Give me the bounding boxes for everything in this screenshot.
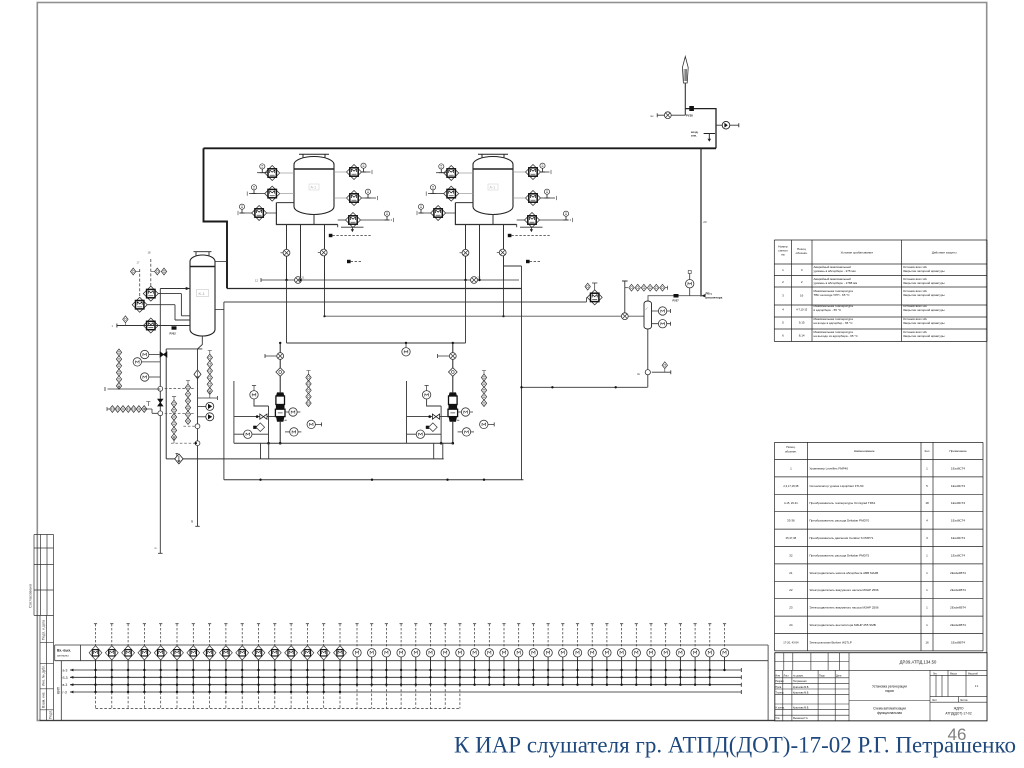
svg-text:РУ02: РУ02 [170, 332, 177, 336]
svg-text:Электродвигатель вакуумного на: Электродвигатель вакуумного насоса МЗНР … [809, 588, 878, 592]
svg-text:Дата: Дата [836, 675, 842, 678]
svg-text:K-1: K-1 [199, 291, 206, 296]
sub-box vertical right [406, 381, 408, 443]
svg-text:в-3: в-3 [63, 683, 68, 687]
frame bottom line [40, 720, 987, 722]
valve 21 [295, 277, 302, 284]
solenoid on feed line [172, 326, 177, 329]
vacuum pump unit N1 [234, 343, 321, 445]
air-supply chain A [116, 349, 121, 389]
svg-text:Закрытие запорной арматуры: Закрытие запорной арматуры [903, 308, 945, 312]
signal bus b-3 [70, 675, 741, 679]
svg-text:паров: паров [885, 689, 894, 693]
svg-text:23: 23 [789, 606, 793, 610]
horizontal air chain H [107, 407, 110, 411]
svg-text:б-3: б-3 [63, 676, 68, 680]
svg-text:Масштаб: Масштаб [968, 673, 979, 675]
pump interconnect line [287, 280, 466, 343]
sensor circle column 15 [559, 624, 567, 686]
sensor circle column 12 [515, 624, 523, 686]
svg-text:1ExdIIBT4: 1ExdIIBT4 [951, 640, 965, 644]
marshalling band enclosure [55, 645, 768, 720]
svg-text:Подп.: Подп. [49, 710, 53, 719]
svg-text:на: на [781, 253, 785, 257]
svg-text:Преобразователь расхода Deltab: Преобразователь расхода Deltabar PMD70 [809, 519, 869, 523]
svg-text:обознач.: обознач. [796, 251, 808, 255]
sensor circle column 25 [706, 624, 714, 686]
junction circles on drain [195, 424, 200, 429]
signal bus v-3 [70, 683, 741, 687]
blower to atmosphere [716, 123, 739, 127]
shutoff valve on flare line [689, 106, 694, 111]
absorber A1 assembly [238, 154, 394, 280]
dashed comb bottom line [96, 708, 460, 710]
svg-text:Закрытие запорной арматуры: Закрытие запорной арматуры [903, 281, 945, 285]
air chain E1 [306, 374, 311, 406]
feed line through M3 [117, 324, 190, 328]
svg-text:Изм: Изм [776, 675, 781, 678]
KIP box [60, 661, 62, 721]
svg-text:Краснова М.В.: Краснова М.В. [793, 686, 809, 689]
svg-text:Закрытие запорной арматуры: Закрытие запорной арматуры [903, 269, 945, 273]
svg-text:4-15, 26-31: 4-15, 26-31 [784, 501, 798, 505]
svg-text:функциональная: функциональная [877, 711, 902, 715]
lean absorbent line [325, 315, 645, 317]
absorbent feed drop line [158, 289, 162, 554]
sensor circle column 10 [485, 624, 493, 686]
left stamp strip (Подп. и дата / Инв №) [40, 615, 54, 720]
condensate header [522, 386, 648, 388]
signal risers above level instruments [139, 269, 141, 297]
column drain [195, 336, 202, 526]
protection logic table [774, 240, 987, 342]
svg-text:25,37,38: 25,37,38 [786, 536, 797, 540]
solenoid valve column 7 [187, 624, 200, 709]
svg-text:1ExdIICT4: 1ExdIICT4 [951, 466, 966, 470]
svg-text:18: 18 [925, 501, 929, 505]
column feed line from instruments [160, 288, 190, 290]
relief header down pipe [700, 148, 702, 296]
svg-text:21: 21 [789, 571, 793, 575]
column side nozzle [215, 309, 224, 311]
sensor circle column 3 [382, 624, 390, 686]
svg-text:1ExdIICT4: 1ExdIICT4 [951, 484, 966, 488]
sensor taps on risers [131, 268, 136, 275]
solenoid valve column 5 [154, 624, 167, 709]
svg-text:22: 22 [789, 588, 793, 592]
title block [775, 653, 987, 721]
svg-text:а-3: а-3 [63, 669, 68, 673]
svg-text:на входе в адсорбер - 65 °С: на входе в адсорбер - 65 °С [814, 321, 854, 325]
svg-text:регулятора: регулятора [706, 296, 723, 300]
svg-text:Наименование: Наименование [854, 449, 875, 453]
svg-text:Электродвигатель вакуумного на: Электродвигатель вакуумного насоса МЗНР … [809, 606, 878, 610]
svg-text:Примечание: Примечание [949, 449, 967, 453]
junction dots under vessels [285, 279, 287, 281]
approval strip table (Согласовано) [34, 535, 54, 616]
main vapour header [227, 288, 522, 290]
svg-text:Закрытие запорной арматуры: Закрытие запорной арматуры [903, 334, 945, 338]
sample branch [198, 396, 218, 400]
svg-text:Краснова М.В.: Краснова М.В. [793, 691, 809, 694]
svg-text:РУ27: РУ27 [673, 299, 680, 303]
solenoid valve column 16 [334, 624, 347, 709]
sub-box vertical left [233, 381, 235, 443]
svg-text:Листов: Листов [960, 700, 968, 702]
svg-text:ДР.09.АТПД.134.50: ДР.09.АТПД.134.50 [900, 660, 937, 665]
svg-text:Лист: Лист [784, 675, 790, 678]
svg-text:Взам. инв.: Взам. инв. [42, 692, 46, 708]
svg-text:Уровнемер Levelflex FMP40: Уровнемер Levelflex FMP40 [809, 466, 848, 470]
level instrument diamond M2 [132, 297, 147, 312]
svg-text:г-3: г-3 [63, 691, 67, 695]
svg-text:Подп. и дата: Подп. и дата [42, 620, 46, 640]
process boundary thick outline [204, 148, 717, 288]
junction circle 2 on drop line [158, 411, 163, 416]
svg-text:2ExdeIIBT4: 2ExdeIIBT4 [950, 606, 966, 610]
svg-text:уровень в абсорбере - 275 мм: уровень в абсорбере - 275 мм [814, 269, 856, 273]
sensor circle column 8 [456, 624, 464, 686]
sensor circle column 4 [397, 624, 405, 686]
instrument air riser [622, 281, 628, 316]
svg-text:33-36: 33-36 [787, 519, 795, 523]
solenoid valve column 2 [105, 624, 118, 709]
svg-text:4-7,10-13: 4-7,10-13 [796, 308, 808, 312]
svg-text:2,3,17,18,38: 2,3,17,18,38 [783, 484, 798, 488]
solenoid valve column 11 [252, 624, 265, 709]
signal bus a-3 [70, 668, 741, 672]
solenoid valve column 6 [171, 624, 184, 709]
sensor circle column 16 [573, 624, 581, 686]
junction circle on drop line [158, 386, 163, 391]
svg-text:1ExdIICT4: 1ExdIICT4 [951, 501, 966, 505]
svg-text:атм.: атм. [691, 134, 697, 138]
junction on lean line [621, 313, 628, 320]
sensor circle column 9 [470, 624, 478, 686]
air chain B [207, 354, 212, 394]
air chain C [185, 384, 190, 424]
svg-text:Согласовано: Согласовано [28, 583, 33, 608]
svg-text:1ExdIICT4: 1ExdIICT4 [951, 536, 966, 540]
svg-text:32: 32 [789, 553, 793, 557]
solenoid valve column 12 [268, 624, 281, 709]
instrument M2 line to column [147, 305, 190, 320]
solenoid valve column 8 [203, 624, 216, 709]
solenoid valve column 15 [317, 624, 330, 709]
vent line with valves [261, 278, 519, 282]
absorbent column K1 [194, 252, 212, 257]
instrument circle M left [141, 350, 149, 358]
svg-text:ЖДПО: ЖДПО [954, 707, 964, 711]
svg-text:Вх.-вых.: Вх.-вых. [57, 649, 71, 653]
riser top connection [166, 348, 202, 350]
svg-text:Т.контр.: Т.контр. [776, 691, 785, 694]
svg-text:Электроклапан Burkert W27LP: Электроклапан Burkert W27LP [809, 640, 851, 644]
level instrument diamond M3 [143, 318, 158, 333]
bottom collection header [224, 479, 524, 481]
sensor circle column 26 [724, 624, 726, 649]
svg-text:Преобразователь расхода Deltab: Преобразователь расхода Deltabar PMD75 [809, 553, 869, 557]
svg-text:РУ38: РУ38 [686, 114, 693, 118]
svg-text:Кол: Кол [925, 449, 930, 453]
sensor circle column 6 [426, 624, 434, 686]
sensor circle column 17 [588, 624, 596, 686]
svg-text:№ докум.: № докум. [793, 675, 804, 678]
equipment list table [775, 442, 984, 651]
solenoid valve column 14 [301, 624, 314, 709]
solenoid valve column 1 [89, 624, 102, 709]
svg-text:23: 23 [703, 220, 707, 224]
svg-text:Электродвигатель вентилятора М: Электродвигатель вентилятора МЗНР 255 SM… [809, 623, 875, 627]
svg-text:2ExdeIIBT4: 2ExdeIIBT4 [950, 588, 966, 592]
sensor circle column 2 [368, 624, 376, 686]
svg-text:на выходе из адсорбера - 65 °С: на выходе из адсорбера - 65 °С [814, 334, 859, 338]
vacuum pump unit N2 [407, 343, 494, 445]
svg-text:16: 16 [925, 640, 929, 644]
air chain E2 [481, 374, 486, 406]
valve 22 [471, 277, 478, 284]
sensor circle column 22 [662, 624, 670, 686]
pump discharge bus [234, 442, 453, 444]
flare knockout box [685, 109, 716, 149]
instrument circle P left [141, 373, 149, 381]
svg-text:9,15: 9,15 [799, 321, 805, 325]
svg-text:Петрашенко: Петрашенко [793, 680, 807, 683]
svg-text:сигналы: сигналы [57, 654, 69, 658]
vessel2 lean pipe extension [503, 280, 505, 316]
svg-text:Краснова М.В.: Краснова М.В. [793, 706, 809, 709]
sensor circle column 21 [647, 624, 655, 686]
solenoid valve column 4 [138, 624, 151, 709]
sensor circle column 18 [603, 624, 611, 686]
K2 bottom drain [647, 329, 649, 388]
instrument circle M2 left [133, 358, 141, 366]
tap on feed line [123, 316, 128, 323]
svg-text:1:1: 1:1 [975, 684, 979, 688]
svg-text:Мышкина Г.А.: Мышкина Г.А. [793, 717, 809, 720]
sensor circle column 13 [529, 624, 537, 686]
absorbent return header [224, 297, 587, 302]
svg-text:1ExdIICT4: 1ExdIICT4 [951, 553, 966, 557]
svg-text:17-20, 43-54: 17-20, 43-54 [783, 640, 799, 644]
svg-text:Действие защиты: Действие защиты [932, 251, 957, 255]
sensor circle column 23 [676, 624, 684, 686]
svg-text:АТПД(ДОТ)-17-02: АТПД(ДОТ)-17-02 [945, 711, 971, 715]
vertical labels of stamp strip [42, 620, 53, 719]
svg-text:Условие срабатывания: Условие срабатывания [841, 251, 874, 255]
sensor circle column 24 [691, 624, 699, 686]
solenoid valve column 13 [285, 624, 298, 709]
sensor circle column 5 [412, 624, 420, 686]
instrument signal dash lines [160, 389, 195, 444]
svg-text:1ExdIICT4: 1ExdIICT4 [951, 519, 966, 523]
svg-text:8,14: 8,14 [799, 333, 805, 337]
svg-text:Лит.: Лит. [933, 673, 938, 675]
svg-text:обознач.: обознач. [785, 450, 797, 454]
air chain D [171, 400, 176, 440]
svg-text:Разраб.: Разраб. [776, 680, 785, 683]
svg-text:Закрытие запорной арматуры: Закрытие запорной арматуры [903, 321, 945, 325]
recycle downcomer [504, 266, 522, 480]
pump takeoffs [198, 405, 206, 407]
sensor circle column 14 [544, 624, 552, 686]
svg-text:Установка регенерации: Установка регенерации [872, 685, 907, 689]
svg-text:К ИАР слушателя гр. АТПД(ДОТ)-: К ИАР слушателя гр. АТПД(ДОТ)-17-02 Р.Г.… [454, 733, 1016, 758]
svg-text:2ExdeIIBT4: 2ExdeIIBT4 [950, 623, 966, 627]
svg-text:Преобразователь температуры Om: Преобразователь температуры Omnigrad TR6… [809, 501, 875, 505]
sensor circle column 11 [500, 624, 508, 686]
svg-text:Утв.: Утв. [776, 717, 781, 720]
solenoid valve column 10 [236, 624, 249, 709]
column top nozzle to boundary [215, 261, 227, 263]
svg-text:в адсорбере - 65 °С: в адсорбере - 65 °С [814, 308, 842, 312]
svg-text:Преобразователь давления Cerab: Преобразователь давления Cerabar S PMP71 [809, 536, 873, 540]
level instrument diamond M1 [143, 286, 158, 301]
regenerated vapour line to regulator [648, 296, 701, 301]
flare stack symbol [682, 57, 688, 84]
pressure regulator instrument [686, 280, 694, 288]
check valve on transfer line [175, 454, 183, 464]
riser from header [223, 302, 225, 480]
shutoff valve on drop line [158, 399, 163, 406]
svg-text:уровень в абсорбере - 1788 мм: уровень в абсорбере - 1788 мм [814, 281, 858, 285]
svg-text:Масса: Масса [950, 673, 958, 675]
svg-text:КИП: КИП [57, 686, 61, 694]
svg-text:Схема автоматизации: Схема автоматизации [873, 707, 906, 711]
transfer line left riser [165, 349, 167, 459]
K2 heater circles [652, 309, 671, 313]
svg-text:Н.контр.: Н.контр. [776, 706, 786, 709]
instrument M1 line to column [158, 294, 190, 316]
svg-text:Позиц.: Позиц. [786, 445, 796, 449]
filled valve near M [160, 352, 167, 357]
signal bus g-3 [70, 690, 741, 694]
svg-text:Сигнализатор уровня Liquiphant: Сигнализатор уровня Liquiphant FTL50 [809, 484, 863, 488]
svg-text:2ExdeIIBT4: 2ExdeIIBT4 [950, 571, 966, 575]
svg-text:Закрытие запорной арматуры: Закрытие запорной арматуры [903, 293, 945, 297]
svg-text:24: 24 [789, 623, 793, 627]
purge line with valve [657, 113, 685, 117]
svg-text:36: 36 [190, 519, 194, 523]
flow element diamond M [587, 290, 602, 305]
svg-text:Пров.: Пров. [776, 686, 783, 689]
sensor circle column 19 [617, 624, 625, 686]
svg-text:Электродвигатель насоса абсорб: Электродвигатель насоса абсорбента АВВ М… [809, 571, 878, 575]
sensor circle column 1 [353, 624, 361, 686]
absorber A2 assembly [417, 154, 573, 280]
pressure instrument on interconnect [405, 343, 407, 347]
svg-text:ТВС на входе УРП - 65 °С: ТВС на входе УРП - 65 °С [814, 293, 851, 297]
discharge connectors [261, 443, 443, 459]
drain control valve [194, 370, 201, 379]
svg-text:Инв. № дубл.: Инв. № дубл. [42, 665, 46, 686]
svg-text:Подп.: Подп. [819, 675, 826, 678]
adsorber column K2 [644, 301, 652, 329]
flare riser pipe [684, 83, 686, 115]
sensor circle column 7 [441, 624, 449, 686]
sensor circle column 20 [632, 624, 640, 686]
solenoid valve column 3 [122, 624, 135, 709]
svg-text:16: 16 [800, 294, 804, 298]
lower transfer line [166, 458, 444, 460]
vessel1 lean pipe extension [324, 280, 326, 316]
solenoid valve column 9 [220, 624, 233, 709]
air chain F horizontal [625, 287, 628, 289]
